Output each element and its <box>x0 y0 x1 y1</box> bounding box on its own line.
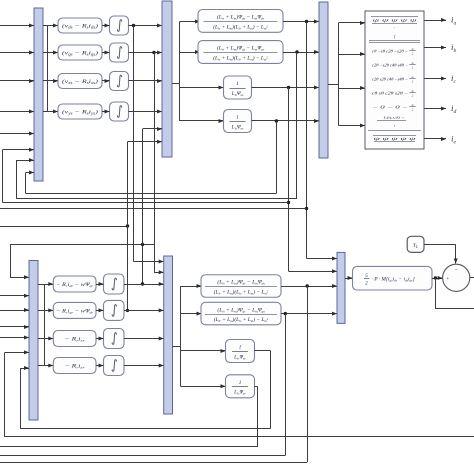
svg-text:c2θ −s2θ c4θ s4θ −: c2θ −s2θ c4θ s4θ − <box>372 63 408 68</box>
svg-text:−: − <box>455 268 459 274</box>
svg-text:(Lls + Lm)(Llr + Lm) − Lm2: (Lls + Lm)(Llr + Lm) − Lm2 <box>213 23 268 30</box>
svg-text:(Llr + Lm)(Lls + Lm) − Lm2: (Llr + Lm)(Lls + Lm) − Lm2 <box>214 288 269 295</box>
svg-text:− Rriqr − wΨdr: − Rriqr − wΨdr <box>56 308 94 314</box>
svg-text:ψ: ψ <box>412 61 414 65</box>
svg-text:(Lls + Lm)(Llr + Lm) − Lm2: (Lls + Lm)(Llr + Lm) − Lm2 <box>213 54 268 61</box>
svg-text:1: 1 <box>236 81 239 87</box>
svg-text:LlrΨxr: LlrΨxr <box>233 354 246 360</box>
svg-text:ψ ψ ψ ψ ψ: ψ ψ ψ ψ ψ <box>373 18 418 23</box>
svg-text:(Llr + Lm)(Lls + Lm) − Lm2: (Llr + Lm)(Lls + Lm) − Lm2 <box>214 316 269 323</box>
svg-text:· P · M[iqsidr − idsiqr]: · P · M[iqsidr − idsiqr] <box>372 277 415 283</box>
svg-text:− Rridr − wΨqr: − Rridr − wΨqr <box>56 282 94 288</box>
svg-text:LlsΨxs: LlsΨxs <box>231 91 244 97</box>
svg-text:ψ: ψ <box>412 89 414 93</box>
svg-text:(Lls + Lm)Ψqr − LmΨqs: (Lls + Lm)Ψqr − LmΨqs <box>217 306 265 313</box>
svg-text:2: 2 <box>365 281 368 287</box>
svg-text:·: · <box>394 27 395 32</box>
svg-text:LlrΨyr: LlrΨyr <box>233 390 246 396</box>
svg-text:ψ ψ ψ ψ ψ: ψ ψ ψ ψ ψ <box>374 136 417 141</box>
svg-text:1: 1 <box>239 380 242 386</box>
svg-text:(Llr + Lm)Ψqs − LmΨqr: (Llr + Lm)Ψqs − LmΨqr <box>217 45 265 52</box>
svg-text:(Llr + Lm)Ψds − LmΨdr: (Llr + Lm)Ψds − LmΨdr <box>217 14 265 21</box>
svg-text:− 0 − 0 −: − 0 − 0 − <box>372 105 409 110</box>
svg-text:LlsΨys: LlsΨys <box>231 124 244 130</box>
svg-text:c2θ s2θ c4θ −s4θ −: c2θ s2θ c4θ −s4θ − <box>372 77 408 82</box>
svg-text:ψ: ψ <box>412 103 414 107</box>
svg-text:cθ sθ c2θ s2θ −: cθ sθ c2θ s2θ − <box>372 91 408 96</box>
svg-text:+: + <box>446 276 449 282</box>
svg-text:ψ: ψ <box>412 47 414 51</box>
svg-text:(Lls + Lm)Ψdr − LmΨds: (Lls + Lm)Ψdr − LmΨds <box>217 279 265 286</box>
svg-text:1: 1 <box>239 345 242 351</box>
svg-text:1: 1 <box>236 115 239 121</box>
svg-text:cθ −sθ c2θ −s2θ −: cθ −sθ c2θ −s2θ − <box>372 49 408 54</box>
svg-text:ψ: ψ <box>412 75 414 79</box>
